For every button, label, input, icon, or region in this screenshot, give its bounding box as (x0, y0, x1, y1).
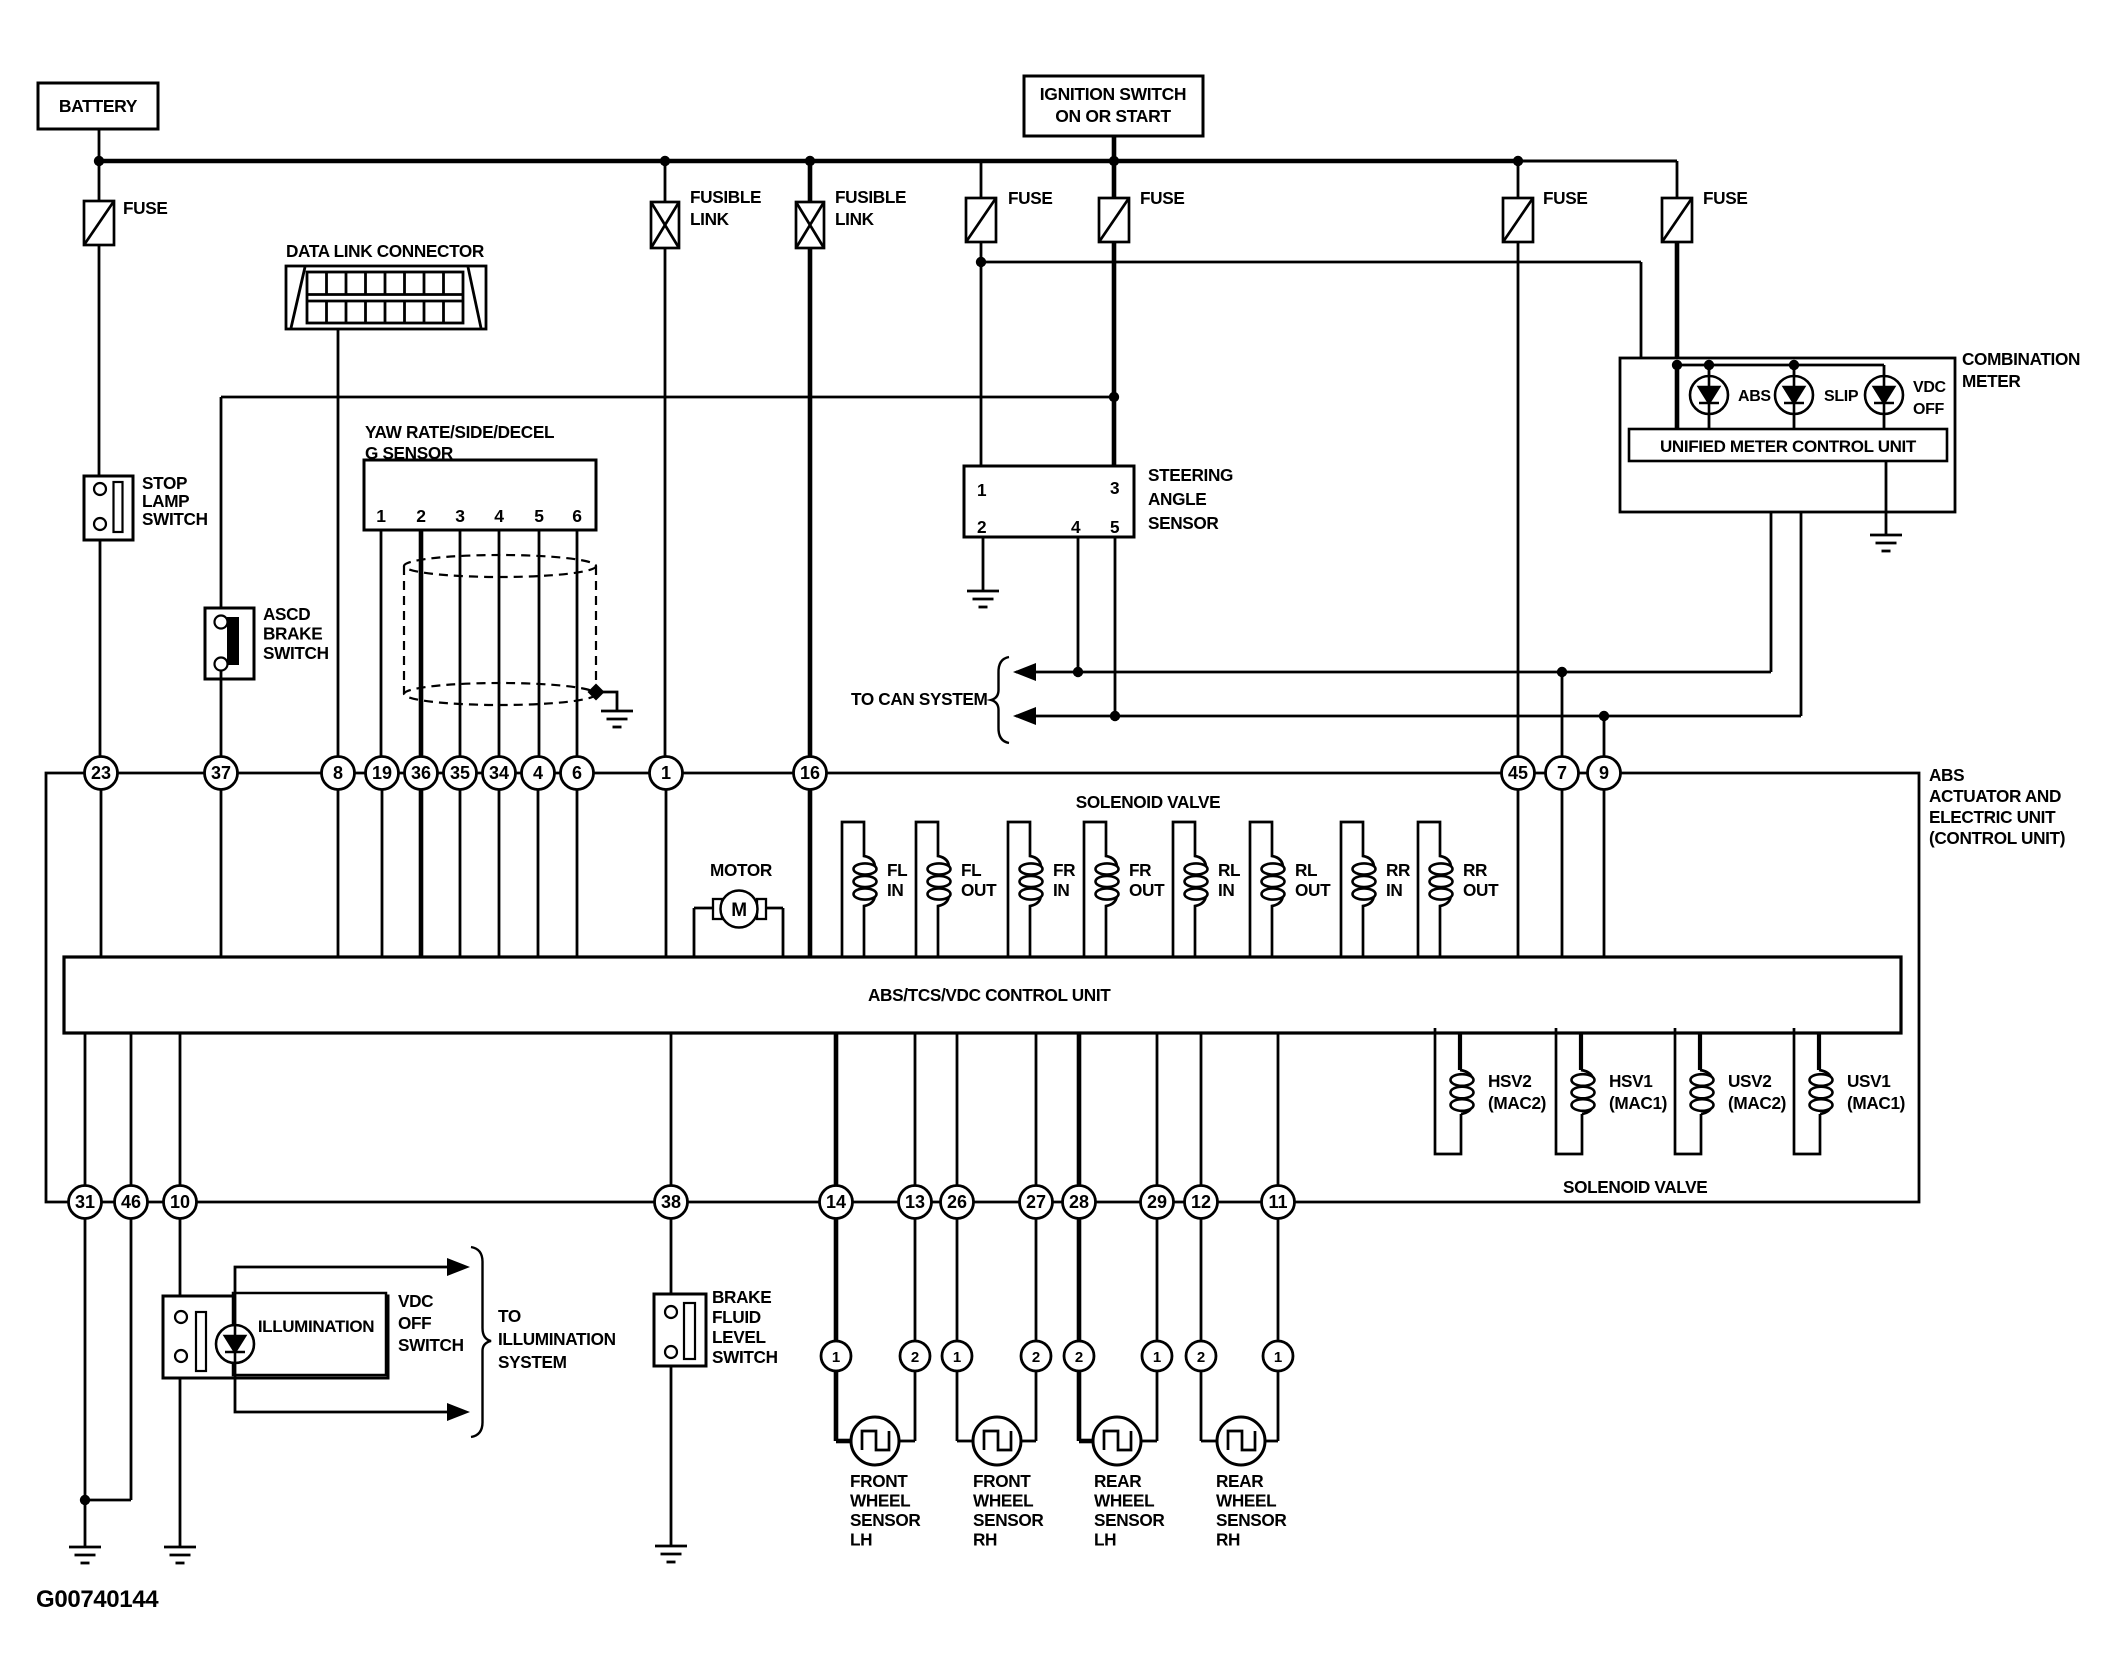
svg-text:BRAKE: BRAKE (263, 624, 322, 644)
fuse F5 (1513, 156, 1523, 166)
REAR WHEEL SENSOR LH pin 1 (1142, 1341, 1172, 1371)
solenoid valve RR OUT (1418, 822, 1451, 957)
wire pin 46 to ground (130, 1219, 133, 1500)
wire connector to control unit (x=101) (100, 789, 103, 957)
wire connector to control unit (x=382) (381, 789, 384, 957)
pin 37 (205, 757, 238, 790)
svg-text:11: 11 (1268, 1192, 1287, 1212)
svg-text:RH: RH (1216, 1530, 1240, 1550)
svg-text:SWITCH: SWITCH (712, 1347, 778, 1367)
svg-text:45: 45 (1508, 763, 1528, 783)
wire battery to fuse (98, 129, 101, 201)
wire data link connector to pin 8 (337, 329, 340, 757)
wire control unit to bottom connector (x=180) (179, 1033, 182, 1186)
wire fuse F1 to stop lamp switch (98, 245, 101, 476)
svg-text:6: 6 (572, 763, 582, 783)
svg-text:9: 9 (1599, 763, 1609, 783)
wire CAN H to unified meter (1800, 461, 1803, 716)
svg-text:2: 2 (911, 1349, 919, 1366)
svg-text:ASCD: ASCD (263, 604, 310, 624)
svg-text:2: 2 (416, 506, 426, 526)
svg-text:(CONTROL UNIT): (CONTROL UNIT) (1929, 828, 2065, 848)
svg-text:FR: FR (1053, 860, 1076, 880)
svg-text:REAR: REAR (1094, 1471, 1142, 1491)
pin 14 (820, 1186, 853, 1219)
pin 45 (1502, 757, 1535, 790)
wire control unit to bottom connector (x=836) (834, 1033, 839, 1186)
svg-text:OUT: OUT (1463, 880, 1499, 900)
REAR WHEEL SENSOR LH pin 2 (1064, 1341, 1094, 1371)
svg-text:LH: LH (850, 1530, 872, 1550)
ground (VDC off switch) (164, 1547, 196, 1563)
REAR WHEEL SENSOR RH (1217, 1417, 1265, 1465)
svg-text:OUT: OUT (961, 880, 997, 900)
svg-text:FUSE: FUSE (1543, 188, 1587, 208)
node CAN H junction (1110, 711, 1120, 721)
solenoid valve FL IN (842, 822, 875, 957)
svg-text:LEVEL: LEVEL (712, 1327, 766, 1347)
svg-text:4: 4 (494, 506, 504, 526)
svg-text:(MAC1): (MAC1) (1847, 1093, 1905, 1113)
svg-text:RL: RL (1218, 860, 1240, 880)
svg-text:BRAKE: BRAKE (712, 1287, 771, 1307)
wire to REAR WHEEL SENSOR LH pin 2 (1077, 1219, 1082, 1341)
svg-text:OFF: OFF (1913, 401, 1945, 418)
svg-text:LINK: LINK (690, 209, 730, 229)
wire to ABS lamp (1708, 365, 1711, 376)
svg-text:FUSE: FUSE (1703, 188, 1747, 208)
pin 36 (405, 757, 438, 790)
wire connector to control unit (x=1518) (1517, 789, 1520, 957)
illumination lamp (216, 1325, 254, 1363)
svg-text:OUT: OUT (1129, 880, 1165, 900)
svg-text:SENSOR: SENSOR (1216, 1510, 1287, 1530)
pin 28 (1063, 1186, 1096, 1219)
pin 46 (115, 1186, 148, 1219)
node ground junction (80, 1495, 90, 1505)
svg-text:ANGLE: ANGLE (1148, 489, 1206, 509)
SLIP warning lamp (1775, 376, 1813, 414)
svg-text:SENSOR: SENSOR (1148, 513, 1219, 533)
svg-text:FL: FL (961, 860, 981, 880)
wire steering pin 5 to CAN H (1114, 537, 1117, 716)
svg-text:LH: LH (1094, 1530, 1116, 1550)
wire fusible link 2 to pin 16 (808, 248, 813, 757)
svg-text:ILLUMINATION: ILLUMINATION (498, 1329, 616, 1349)
fuse F3 (980, 161, 983, 198)
node CAN L to pin 7 (1557, 667, 1567, 677)
wire to SLIP lamp (1793, 365, 1796, 376)
wire to REAR WHEEL SENSOR LH pin 1 (1156, 1219, 1159, 1341)
wire CAN L to unified meter (1770, 461, 1773, 672)
wire shield to ground (596, 692, 617, 711)
wire pin 38 to brake fluid level switch (670, 1219, 673, 1294)
wire CAN line H (1016, 715, 1801, 718)
svg-text:STOP: STOP (142, 473, 187, 493)
svg-text:SOLENOID VALVE: SOLENOID VALVE (1076, 792, 1220, 812)
svg-text:IN: IN (1218, 880, 1235, 900)
wire fuse F5 to pin 45 (1517, 242, 1520, 757)
wire to REAR WHEEL SENSOR RH pin 1 (1277, 1219, 1280, 1341)
svg-text:4: 4 (533, 763, 543, 783)
svg-text:1: 1 (661, 763, 671, 783)
REAR WHEEL SENSOR RH pin 1 (1263, 1341, 1293, 1371)
wire control unit to bottom connector (x=1036) (1035, 1033, 1038, 1186)
svg-text:M: M (731, 900, 746, 921)
fuse F6 (1676, 161, 1679, 198)
svg-text:FL: FL (887, 860, 907, 880)
pin 12 (1185, 1186, 1218, 1219)
FRONT WHEEL SENSOR RH pin 2 (1021, 1341, 1051, 1371)
svg-text:SENSOR: SENSOR (850, 1510, 921, 1530)
svg-text:(MAC2): (MAC2) (1728, 1093, 1786, 1113)
svg-text:FUSE: FUSE (123, 198, 167, 218)
wire connector to control unit (x=538) (537, 789, 540, 957)
illumination lamp box (233, 1293, 386, 1375)
svg-text:46: 46 (121, 1192, 141, 1212)
wire VDC off switch to ground (179, 1378, 182, 1547)
solenoid valve RL IN (1173, 822, 1206, 957)
node CAN H to pin 9 (1599, 711, 1609, 721)
solenoid valve RR IN (1341, 822, 1374, 957)
svg-text:FUSIBLE: FUSIBLE (835, 187, 906, 207)
svg-text:2: 2 (1075, 1349, 1083, 1366)
FRONT WHEEL SENSOR LH pin 1 (821, 1341, 851, 1371)
svg-text:ACTUATOR AND: ACTUATOR AND (1929, 786, 2061, 806)
pin 8 (322, 757, 355, 790)
ignition switch (1024, 76, 1203, 136)
svg-text:(MAC2): (MAC2) (1488, 1093, 1546, 1113)
svg-text:REAR: REAR (1216, 1471, 1264, 1491)
svg-text:IGNITION SWITCH: IGNITION SWITCH (1040, 84, 1186, 104)
wire yaw sensor pin to connector (x=539) (538, 530, 541, 757)
svg-text:STEERING: STEERING (1148, 465, 1233, 485)
solenoid valve FR OUT (1084, 822, 1117, 957)
wire control unit to bottom connector (x=1157) (1156, 1033, 1159, 1186)
wire connector to control unit (x=1604) (1603, 789, 1606, 957)
wire connector to control unit (x=1562) (1561, 789, 1564, 957)
ground (combination meter) (1870, 535, 1902, 551)
svg-text:38: 38 (661, 1192, 681, 1212)
ground (pins 31/46) (69, 1547, 101, 1563)
shield (yaw sensor harness) (404, 555, 596, 705)
wire stop lamp switch to pin 23 (99, 540, 102, 757)
VDC off switch (163, 1296, 388, 1378)
pin 6 (561, 757, 594, 790)
svg-text:HSV2: HSV2 (1488, 1071, 1532, 1091)
wire meter lamp feed (1677, 364, 1884, 367)
svg-text:2: 2 (1197, 1349, 1205, 1366)
wire connector to control unit (x=421) (419, 789, 424, 957)
wire control unit to bottom connector (x=1201) (1200, 1033, 1203, 1186)
svg-text:27: 27 (1026, 1192, 1046, 1212)
svg-text:13: 13 (905, 1192, 925, 1212)
unified meter control unit (1629, 429, 1947, 461)
solenoid valve HSV1 (MAC1) (1579, 1033, 1583, 1070)
svg-text:23: 23 (91, 763, 111, 783)
wire connector to control unit (x=338) (337, 789, 340, 957)
wire steering pin 2 to ground (982, 537, 985, 591)
svg-text:TO CAN SYSTEM: TO CAN SYSTEM (851, 689, 987, 709)
FRONT WHEEL SENSOR LH pin 2 (900, 1341, 930, 1371)
svg-text:OFF: OFF (398, 1313, 431, 1333)
wire to FRONT WHEEL SENSOR RH pin 2 (1035, 1219, 1038, 1341)
pin 4 (522, 757, 555, 790)
svg-text:FLUID: FLUID (712, 1307, 761, 1327)
pin 35 (444, 757, 477, 790)
svg-text:ILLUMINATION: ILLUMINATION (258, 1317, 374, 1336)
brake fluid level switch (654, 1294, 706, 1366)
wire meter feed (981, 261, 1641, 264)
svg-text:ON OR START: ON OR START (1055, 106, 1171, 126)
combination meter (1620, 358, 1955, 512)
svg-text:ABS: ABS (1738, 388, 1771, 405)
svg-text:2: 2 (977, 517, 986, 537)
fusible link 2 (805, 156, 815, 166)
wire steering pin 4 to CAN L (1077, 537, 1080, 672)
pin 27 (1020, 1186, 1053, 1219)
svg-text:7: 7 (1557, 763, 1567, 783)
svg-text:8: 8 (333, 763, 343, 783)
pin 19 (366, 757, 399, 790)
solenoid valve FL OUT (916, 822, 949, 957)
solenoid valve HSV2 (MAC2) (1458, 1033, 1462, 1070)
REAR WHEEL SENSOR RH pin 2 (1186, 1341, 1216, 1371)
pin 7 (1546, 757, 1579, 790)
wire connector to control unit (x=460) (459, 789, 462, 957)
pin 10 (164, 1186, 197, 1219)
svg-text:28: 28 (1069, 1192, 1089, 1212)
pin 38 (655, 1186, 688, 1219)
svg-text:SWITCH: SWITCH (398, 1335, 464, 1355)
wire yaw sensor pin to connector (x=421) (419, 530, 424, 757)
wire battery supply bus (99, 159, 1518, 163)
svg-text:FR: FR (1129, 860, 1152, 880)
wire bus to fuse F6 (1518, 160, 1677, 163)
pin 16 (794, 757, 827, 790)
svg-text:1: 1 (1274, 1349, 1282, 1366)
wire CAN line L (1016, 671, 1771, 674)
wire to FRONT WHEEL SENSOR LH pin 1 (834, 1219, 839, 1341)
pin 31 (69, 1186, 102, 1219)
svg-text:1: 1 (376, 506, 386, 526)
svg-text:USV2: USV2 (1728, 1071, 1772, 1091)
svg-text:31: 31 (75, 1192, 95, 1212)
wire motor right (766, 907, 783, 910)
svg-text:(MAC1): (MAC1) (1609, 1093, 1667, 1113)
svg-text:OUT: OUT (1295, 880, 1331, 900)
FRONT WHEEL SENSOR RH (973, 1417, 1021, 1465)
wire fuse F4 to steering sensor pin 3 (1112, 242, 1117, 467)
svg-text:USV1: USV1 (1847, 1071, 1891, 1091)
svg-text:FRONT: FRONT (850, 1471, 908, 1491)
wire yaw sensor pin to connector (x=499) (498, 530, 501, 757)
wire to REAR WHEEL SENSOR RH pin 2 (1200, 1219, 1203, 1341)
stop lamp switch (84, 476, 133, 540)
FRONT WHEEL SENSOR LH (851, 1417, 899, 1465)
REAR WHEEL SENSOR LH (1093, 1417, 1141, 1465)
fusible link 1 (660, 156, 670, 166)
ground (steering angle sensor) (967, 591, 999, 607)
VDC OFF warning lamp (1865, 376, 1903, 414)
svg-text:1: 1 (832, 1349, 840, 1366)
FRONT WHEEL SENSOR RH pin 1 (942, 1341, 972, 1371)
wire pin 31 to ground (84, 1219, 87, 1547)
svg-text:SYSTEM: SYSTEM (498, 1352, 567, 1372)
svg-text:SENSOR: SENSOR (973, 1510, 1044, 1530)
svg-text:SENSOR: SENSOR (1094, 1510, 1165, 1530)
wire unified meter to ground (1885, 461, 1888, 535)
wire ASCD switch to ignition feed (220, 397, 223, 617)
svg-text:WHEEL: WHEEL (850, 1491, 910, 1511)
fuse F1 (battery) (84, 201, 114, 245)
node CAN L junction (1073, 667, 1083, 677)
ABS warning lamp (1690, 376, 1728, 414)
svg-text:10: 10 (170, 1192, 190, 1212)
pin 26 (941, 1186, 974, 1219)
wire control unit to bottom connector (x=131) (130, 1033, 133, 1186)
wire connector to control unit (x=666) (665, 789, 668, 957)
brace CAN system (991, 657, 1009, 743)
steering angle sensor (964, 466, 1134, 537)
wire fuse F3 to steering sensor pin 1 (980, 242, 983, 466)
svg-text:TO: TO (498, 1306, 521, 1326)
pin 29 (1141, 1186, 1174, 1219)
svg-text:SWITCH: SWITCH (142, 509, 208, 529)
wire fusible link 1 to pin 1 (664, 248, 667, 757)
svg-text:LINK: LINK (835, 209, 875, 229)
pin 11 (1262, 1186, 1295, 1219)
wire yaw sensor pin to connector (x=460) (459, 530, 462, 757)
pin 9 (1588, 757, 1621, 790)
fuse F4 (ignition) (1099, 198, 1129, 242)
svg-text:FUSIBLE: FUSIBLE (690, 187, 761, 207)
wire control unit to bottom connector (x=671) (670, 1033, 673, 1186)
pin 13 (899, 1186, 932, 1219)
svg-text:YAW RATE/SIDE/DECEL: YAW RATE/SIDE/DECEL (365, 422, 554, 442)
svg-text:6: 6 (572, 506, 582, 526)
brace illumination system (471, 1247, 491, 1437)
svg-text:WHEEL: WHEEL (1094, 1491, 1154, 1511)
svg-text:14: 14 (826, 1192, 846, 1212)
ABS actuator and electric unit box (46, 773, 1919, 1202)
wire connector to control unit (x=221) (220, 789, 223, 957)
svg-text:FUSE: FUSE (1008, 188, 1052, 208)
svg-text:ABS: ABS (1929, 765, 1964, 785)
svg-text:ELECTRIC UNIT: ELECTRIC UNIT (1929, 807, 2056, 827)
svg-text:MOTOR: MOTOR (710, 860, 773, 880)
solenoid valve USV1 (MAC1) (1817, 1033, 1821, 1070)
svg-text:1: 1 (1153, 1349, 1161, 1366)
wire brake fluid level switch to ground (670, 1366, 673, 1546)
wire control unit to bottom connector (x=85) (84, 1033, 87, 1186)
ground (shield) (601, 711, 633, 727)
svg-text:1: 1 (977, 480, 987, 500)
svg-text:WHEEL: WHEEL (1216, 1491, 1276, 1511)
pin 34 (483, 757, 516, 790)
svg-text:RR: RR (1463, 860, 1488, 880)
svg-text:VDC: VDC (1913, 379, 1947, 396)
node battery bus junction (94, 156, 104, 166)
solenoid valve FR IN (1008, 822, 1041, 957)
svg-text:5: 5 (1110, 517, 1120, 537)
wire motor left (693, 908, 696, 957)
svg-text:SOLENOID VALVE: SOLENOID VALVE (1563, 1177, 1707, 1197)
wire to FRONT WHEEL SENSOR LH pin 2 (914, 1219, 917, 1341)
wire control unit to bottom connector (x=915) (914, 1033, 917, 1186)
svg-text:LAMP: LAMP (142, 491, 189, 511)
svg-text:SLIP: SLIP (1824, 388, 1859, 405)
battery (38, 83, 158, 129)
svg-text:ABS/TCS/VDC CONTROL UNIT: ABS/TCS/VDC CONTROL UNIT (868, 985, 1111, 1005)
svg-text:UNIFIED METER CONTROL UNIT: UNIFIED METER CONTROL UNIT (1660, 437, 1917, 456)
svg-text:36: 36 (411, 763, 431, 783)
svg-text:3: 3 (1110, 478, 1119, 498)
wire control unit to bottom connector (x=957) (956, 1033, 959, 1186)
svg-text:37: 37 (211, 763, 231, 783)
svg-text:29: 29 (1147, 1192, 1167, 1212)
svg-text:HSV1: HSV1 (1609, 1071, 1653, 1091)
svg-text:3: 3 (455, 506, 465, 526)
svg-text:COMBINATION: COMBINATION (1962, 349, 2080, 369)
wire illumination to illumination system (bottom) (235, 1364, 449, 1412)
svg-text:2: 2 (1032, 1349, 1040, 1366)
svg-text:METER: METER (1962, 371, 2021, 391)
ground (brake fluid level switch) (655, 1546, 687, 1562)
svg-text:BATTERY: BATTERY (59, 96, 138, 116)
ABS/TCS/VDC control unit (64, 957, 1901, 1033)
solenoid valve USV2 (MAC2) (1698, 1033, 1702, 1070)
svg-text:IN: IN (887, 880, 904, 900)
wire connector to control unit (x=499) (498, 789, 501, 957)
svg-text:34: 34 (489, 763, 509, 783)
svg-text:FUSE: FUSE (1140, 188, 1184, 208)
node ignition feed junction (1109, 392, 1119, 402)
svg-text:WHEEL: WHEEL (973, 1491, 1033, 1511)
wire illumination to illumination system (top) (235, 1267, 449, 1324)
node meter feed junction (976, 257, 986, 267)
svg-text:4: 4 (1071, 517, 1081, 537)
svg-text:12: 12 (1191, 1192, 1211, 1212)
wire ignition switch to fuse F4 (1112, 136, 1117, 198)
svg-text:G00740144: G00740144 (36, 1586, 159, 1613)
wire connector to control unit (x=810) (808, 789, 813, 957)
wire ASCD switch to pin 37 (220, 671, 223, 757)
wire pin 10 to VDC off switch (179, 1219, 182, 1296)
solenoid valve RL OUT (1250, 822, 1283, 957)
svg-text:19: 19 (372, 763, 392, 783)
wire to FRONT WHEEL SENSOR RH pin 1 (956, 1219, 959, 1341)
svg-text:DATA LINK CONNECTOR: DATA LINK CONNECTOR (286, 241, 485, 261)
svg-text:26: 26 (947, 1192, 967, 1212)
svg-text:IN: IN (1386, 880, 1403, 900)
svg-text:35: 35 (450, 763, 470, 783)
svg-text:16: 16 (800, 763, 820, 783)
pin 1 (650, 757, 683, 790)
svg-text:IN: IN (1053, 880, 1070, 900)
svg-text:FRONT: FRONT (973, 1471, 1031, 1491)
wire connector to control unit (x=577) (576, 789, 579, 957)
svg-text:SWITCH: SWITCH (263, 643, 329, 663)
wire fuse F6 to combination meter (1675, 242, 1680, 429)
wire control unit to bottom connector (x=1079) (1077, 1033, 1082, 1186)
svg-text:RH: RH (973, 1530, 997, 1550)
wire control unit to bottom connector (x=1278) (1277, 1033, 1280, 1186)
svg-text:RL: RL (1295, 860, 1317, 880)
svg-text:VDC: VDC (398, 1291, 433, 1311)
wire yaw sensor pin to connector (x=381) (380, 530, 383, 757)
wire yaw sensor pin to connector (x=577) (576, 530, 579, 757)
